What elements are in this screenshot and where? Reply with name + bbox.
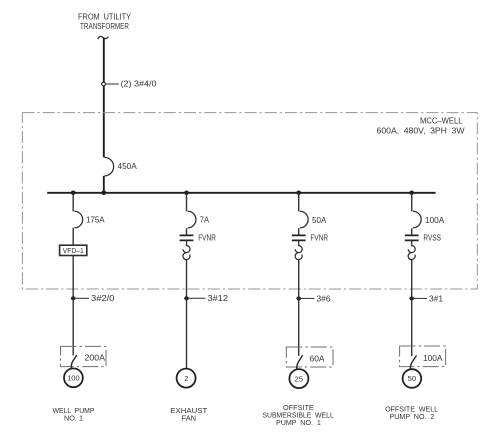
svg-text:7A: 7A bbox=[200, 216, 210, 225]
svg-text:NO. 1: NO. 1 bbox=[64, 413, 83, 422]
svg-text:FAN: FAN bbox=[182, 413, 197, 422]
svg-text:3#2/0: 3#2/0 bbox=[91, 294, 115, 303]
junction dot: feeder 3 tap bbox=[296, 191, 301, 196]
motor 25 HP (offsite submersible well pump no.1) bbox=[289, 369, 308, 388]
svg-text:3#12: 3#12 bbox=[208, 294, 229, 303]
svg-text:200A: 200A bbox=[85, 353, 106, 362]
svg-text:175A: 175A bbox=[86, 216, 105, 225]
overload relay (feeder 2) bbox=[183, 240, 190, 259]
motor 100 HP (well pump no.1) bbox=[64, 368, 83, 387]
breaker 450A (main) bbox=[104, 157, 137, 176]
junction dot: feeder 4 tap bbox=[409, 191, 414, 196]
disconnect switch enclosure 100A (dash-dot) bbox=[400, 346, 446, 367]
svg-text:2: 2 bbox=[184, 376, 188, 383]
junction dot: main to bus bbox=[102, 191, 107, 196]
wire: feeder 1 breaker to VFD bbox=[72, 228, 74, 245]
svg-text:100A: 100A bbox=[425, 216, 445, 225]
wire: feeder 4 drop from bus bbox=[411, 193, 413, 212]
svg-text:450A: 450A bbox=[118, 162, 138, 171]
svg-text:100: 100 bbox=[67, 376, 80, 383]
label OFFSITE SUBMERSIBLE WELL PUMP NO. 1 bbox=[262, 403, 333, 427]
contactor FVNR (feeder 2) bbox=[180, 233, 216, 242]
disconnect switch enclosure 60A (dash-dot) bbox=[286, 347, 333, 367]
wire: feeder 3 breaker to contactor bbox=[298, 228, 300, 234]
svg-text:600A, 480V, 3PH 3W: 600A, 480V, 3PH 3W bbox=[377, 126, 465, 135]
enclosure MCC-WELL boundary (dash-dot) bbox=[22, 113, 477, 289]
label OFFSITE WELL PUMP NO. 2 bbox=[385, 404, 438, 421]
motor 50 HP (offsite well pump no.2) bbox=[403, 369, 422, 388]
label FROM UTILITY TRANSFORMER bbox=[78, 12, 132, 31]
label WELL PUMP NO. 1 bbox=[53, 406, 95, 423]
svg-text:3#1: 3#1 bbox=[429, 294, 444, 303]
node: feeder 1 conductor marker bbox=[71, 296, 89, 300]
switch blade (feeder 1 disconnect) bbox=[71, 355, 77, 368]
svg-text:60A: 60A bbox=[310, 354, 326, 363]
svg-text:MCC–WELL: MCC–WELL bbox=[420, 116, 463, 125]
wire: feeder 3 overload to disconnect bbox=[298, 260, 300, 356]
junction dot: feeder 1 tap bbox=[71, 191, 76, 196]
svg-text:PUMP NO. 1: PUMP NO. 1 bbox=[276, 418, 321, 427]
overload relay (feeder 3) bbox=[295, 240, 302, 259]
svg-text:VFD–1: VFD–1 bbox=[63, 248, 84, 255]
label MCC-WELL bbox=[377, 116, 465, 135]
svg-text:100A: 100A bbox=[423, 354, 443, 363]
breaker 50A (feeder 3) bbox=[300, 211, 327, 228]
label EXHAUST FAN bbox=[170, 406, 207, 423]
wire: feeder 1 drop from bus bbox=[72, 193, 74, 212]
svg-text:FVNR: FVNR bbox=[310, 234, 328, 243]
continuation squiggle at top of utility feed bbox=[98, 36, 109, 39]
wire: feeder 3 drop from bus bbox=[298, 193, 300, 212]
svg-text:RVSS: RVSS bbox=[423, 234, 441, 243]
svg-text:FROM UTILITY: FROM UTILITY bbox=[78, 12, 132, 21]
svg-text:TRANSFORMER: TRANSFORMER bbox=[80, 22, 129, 31]
junction dot: feeder 2 tap bbox=[184, 191, 189, 196]
node: feeder 2 conductor marker bbox=[184, 296, 205, 300]
wire: utility feed lower segment to bus bbox=[103, 176, 105, 193]
wire: feeder 2 overload to motor bbox=[186, 260, 188, 369]
contactor FVNR (feeder 3) bbox=[292, 234, 328, 243]
wire: feeder 2 drop from bus bbox=[186, 193, 188, 212]
breaker 175A (feeder 1) bbox=[74, 211, 105, 228]
svg-text:25: 25 bbox=[295, 376, 304, 383]
wire: feeder 1 VFD to disconnect bbox=[72, 256, 74, 356]
wire: feeder 4 breaker to starter bbox=[411, 228, 413, 234]
motor 2 HP (exhaust fan) bbox=[177, 369, 196, 388]
overload relay (feeder 4) bbox=[408, 240, 415, 259]
switch blade (feeder 4 disconnect) bbox=[410, 356, 416, 370]
svg-text:50A: 50A bbox=[312, 216, 327, 225]
svg-text:50: 50 bbox=[408, 376, 417, 383]
bus: 600A horizontal bus bbox=[47, 192, 435, 194]
disconnect switch enclosure 200A (dash-dot) bbox=[61, 346, 107, 366]
node: feeder 4 conductor marker bbox=[409, 296, 427, 300]
switch blade (feeder 3 disconnect) bbox=[297, 355, 303, 369]
wire: utility feed upper segment bbox=[103, 38, 105, 158]
breaker 100A (feeder 4) bbox=[413, 211, 445, 228]
breaker 7A (feeder 2) bbox=[188, 211, 210, 228]
svg-text:3#6: 3#6 bbox=[317, 294, 332, 303]
node: feeder conductor marker on utility feed bbox=[102, 82, 119, 86]
svg-text:FVNR: FVNR bbox=[198, 233, 216, 242]
VFD-1 drive box bbox=[60, 245, 87, 255]
svg-text:PUMP NO. 2: PUMP NO. 2 bbox=[390, 412, 435, 421]
node: feeder 3 conductor marker bbox=[296, 296, 314, 300]
svg-text:(2) 3#4/0: (2) 3#4/0 bbox=[121, 80, 158, 89]
wire: feeder 2 breaker to contactor bbox=[186, 228, 188, 234]
wire: feeder 4 overload to disconnect bbox=[411, 260, 413, 356]
starter RVSS (feeder 4) bbox=[405, 234, 441, 243]
